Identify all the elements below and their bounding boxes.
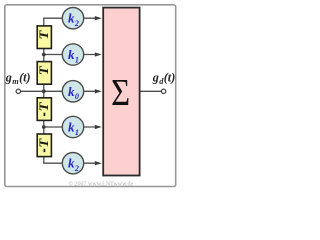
svg-text:© 2007 www.LNTwww.de: © 2007 www.LNTwww.de	[69, 180, 134, 187]
arrowhead into summer row 1	[95, 16, 102, 20]
svg-text:T: T	[37, 102, 51, 112]
svg-text:gd(t): gd(t)	[152, 71, 175, 87]
delay block -T (bottom)	[37, 134, 52, 157]
arrowhead into summer row 4	[95, 125, 102, 129]
arrowhead into summer row 5	[95, 161, 102, 165]
wire: bottom tap row to k2	[43, 162, 96, 164]
wire: row 2 tap to k1	[44, 54, 97, 56]
wire: top tap row to k2	[43, 17, 96, 19]
coefficient k2 (top)	[62, 8, 83, 29]
wire: summer output	[140, 90, 161, 92]
coefficient k1 (upper)	[62, 44, 83, 65]
border frame (decorative)	[5, 5, 176, 187]
svg-text:T: T	[37, 138, 51, 148]
coefficient k0 (center)	[62, 81, 83, 102]
arrowhead into summer row 2	[95, 52, 102, 56]
svg-text:Σ: Σ	[111, 71, 130, 114]
coefficient k2 (bottom)	[62, 153, 83, 174]
svg-text:T: T	[37, 66, 51, 76]
junction node input row	[42, 89, 46, 93]
output terminal	[161, 89, 165, 93]
input terminal	[16, 89, 20, 93]
junction node row 2	[42, 53, 46, 57]
wire: row 4 tap to k1	[44, 126, 97, 128]
svg-text:T: T	[37, 30, 51, 40]
wire: vertical delay-chain bus	[43, 18, 45, 163]
delay block T (top)	[37, 26, 52, 49]
coefficient k1 (lower)	[62, 116, 83, 137]
delay block T (second)	[37, 62, 52, 85]
delay block -T (third)	[37, 98, 52, 121]
junction node row 4	[42, 125, 46, 129]
arrowhead into summer row 3	[95, 89, 102, 93]
summer block U1	[103, 8, 139, 176]
wire: input row to k0	[21, 90, 97, 92]
